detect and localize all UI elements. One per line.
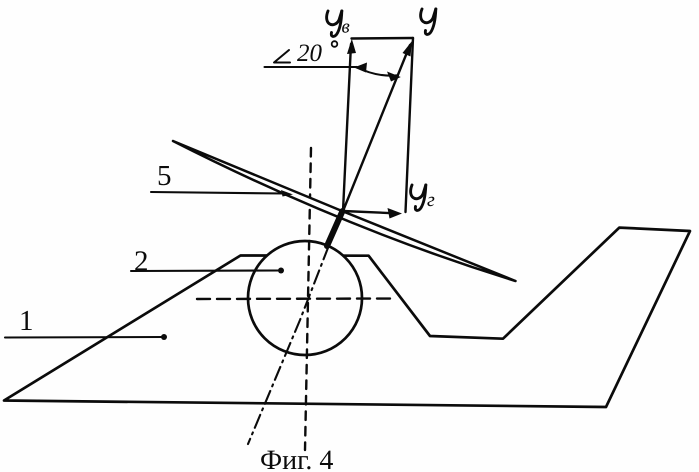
label 1 (19, 17, 435, 472)
label Yv (script) (327, 11, 342, 36)
airframe planform outline 1 (4, 228, 690, 407)
svg-text:в: в (342, 17, 350, 38)
dash-dot tilted rotor axis (248, 222, 338, 444)
svg-text:г: г (427, 189, 435, 211)
svg-text:Фиг. 4: Фиг. 4 (260, 445, 333, 472)
degree mark (332, 41, 338, 47)
right line of parallelogram (406, 38, 414, 212)
rotor blade 5 (173, 141, 516, 281)
angle arc 20 deg (356, 67, 398, 76)
leader line for 2 (131, 269, 281, 272)
label Yg (script) (411, 185, 426, 210)
horizontal line to angle label (265, 66, 358, 68)
svg-text:2: 2 (134, 246, 149, 278)
svg-text:20: 20 (297, 40, 323, 67)
svg-text:1: 1 (19, 305, 34, 337)
svg-text:5: 5 (157, 160, 172, 192)
dashed vertical axis (305, 148, 311, 450)
leader line for 1 (5, 336, 165, 339)
dashed horizontal centerline (197, 297, 396, 300)
leader line for 5 (151, 192, 284, 194)
rotor hub circle 2 (248, 241, 362, 355)
top line of parallelogram (352, 37, 414, 40)
vector Y (diagonal) (343, 45, 410, 211)
rotor mast (thick) (327, 211, 343, 246)
vector Yg (horizontal) (343, 211, 395, 213)
label Y (script) (421, 9, 436, 34)
angle symbol of label (274, 50, 290, 63)
vector Yv (vertical) (343, 44, 351, 211)
